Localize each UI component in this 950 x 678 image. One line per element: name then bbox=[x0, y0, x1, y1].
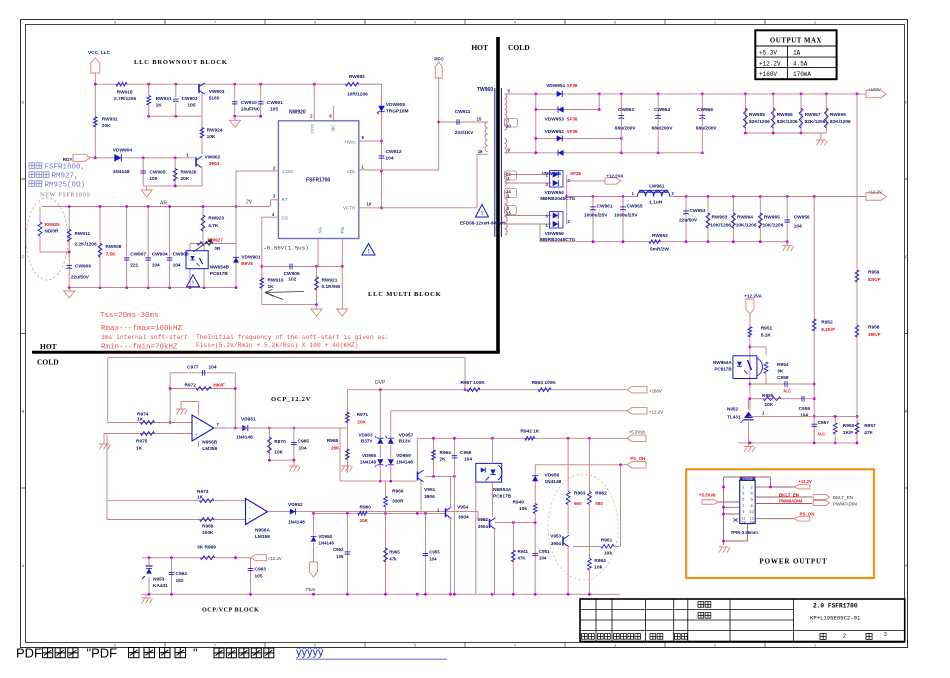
svg-text:10K/1206: 10K/1206 bbox=[763, 223, 784, 229]
svg-text:7: 7 bbox=[214, 644, 216, 648]
svg-text:8.2K/F: 8.2K/F bbox=[821, 327, 835, 332]
svg-text:PG: PG bbox=[340, 226, 345, 233]
svg-text:N956B: N956B bbox=[202, 440, 217, 446]
svg-text:VDW952: VDW952 bbox=[545, 129, 565, 135]
svg-text:CW901: CW901 bbox=[267, 100, 283, 106]
svg-text:2: 2 bbox=[714, 644, 716, 648]
svg-text:PC817B: PC817B bbox=[714, 367, 732, 372]
svg-text:82K/1206: 82K/1206 bbox=[749, 119, 770, 125]
svg-text:580: 580 bbox=[595, 501, 603, 506]
svg-text:CW961: CW961 bbox=[597, 204, 613, 210]
svg-text:C952: C952 bbox=[333, 547, 344, 552]
svg-text:1K: 1K bbox=[136, 446, 143, 452]
svg-text:B37V: B37V bbox=[361, 439, 373, 444]
svg-text:3904: 3904 bbox=[551, 541, 562, 546]
svg-text:10K/1206: 10K/1206 bbox=[736, 223, 757, 229]
svg-text:RW931: RW931 bbox=[156, 96, 172, 102]
svg-text:10K: 10K bbox=[274, 450, 283, 456]
svg-text:CW955: CW955 bbox=[627, 204, 643, 210]
svg-text:1N4148: 1N4148 bbox=[113, 169, 130, 175]
svg-text:104: 104 bbox=[386, 156, 394, 162]
svg-text:1000u/25V: 1000u/25V bbox=[614, 213, 638, 219]
svg-text:16: 16 bbox=[478, 149, 483, 154]
svg-text:R984: R984 bbox=[594, 558, 606, 564]
svg-text:390/F: 390/F bbox=[213, 383, 225, 388]
svg-text:R957: R957 bbox=[864, 423, 876, 429]
svg-text:10K/1206: 10K/1206 bbox=[710, 223, 731, 229]
svg-text:R954: R954 bbox=[777, 362, 789, 368]
svg-text:20K: 20K bbox=[102, 123, 111, 129]
svg-text:PC817B: PC817B bbox=[210, 271, 229, 277]
svg-text:RW910: RW910 bbox=[268, 278, 284, 284]
svg-text:SF38: SF38 bbox=[567, 116, 578, 121]
svg-text:10K: 10K bbox=[207, 134, 216, 140]
svg-text:V952: V952 bbox=[477, 517, 488, 522]
svg-text:R863 100K: R863 100K bbox=[532, 380, 557, 386]
svg-text:N.C: N.C bbox=[818, 432, 827, 437]
svg-text:COLD: COLD bbox=[508, 43, 530, 52]
svg-text:1N4148: 1N4148 bbox=[288, 520, 305, 526]
svg-text:RW925: RW925 bbox=[45, 222, 61, 227]
svg-text:4: 4 bbox=[514, 644, 516, 648]
svg-text:VDW954: VDW954 bbox=[545, 190, 565, 196]
svg-text:47k: 47k bbox=[389, 557, 397, 562]
svg-text:BKLT_EN: BKLT_EN bbox=[833, 495, 853, 500]
svg-text:VD957: VD957 bbox=[399, 433, 414, 439]
svg-text:20K: 20K bbox=[331, 446, 340, 451]
svg-text:HOT: HOT bbox=[471, 43, 488, 52]
svg-text:3: 3 bbox=[614, 644, 616, 648]
svg-text:N953: N953 bbox=[153, 577, 165, 583]
svg-text:A: A bbox=[22, 563, 25, 568]
svg-text:22u/50V: 22u/50V bbox=[71, 275, 90, 281]
svg-text:R958: R958 bbox=[868, 325, 880, 331]
svg-text:LW961: LW961 bbox=[649, 184, 665, 190]
svg-text:C: C bbox=[21, 254, 24, 259]
svg-text:2V: 2V bbox=[246, 200, 253, 206]
svg-text:RW957: RW957 bbox=[805, 112, 821, 118]
svg-text:VD955: VD955 bbox=[362, 453, 376, 458]
svg-text:R967 100K: R967 100K bbox=[461, 380, 486, 386]
svg-text:3904: 3904 bbox=[458, 515, 469, 521]
svg-text:1K: 1K bbox=[137, 417, 144, 423]
svg-text:3: 3 bbox=[884, 632, 887, 638]
svg-text:−: − bbox=[195, 421, 198, 426]
svg-text:RW908: RW908 bbox=[106, 244, 122, 250]
svg-text:ND/0R: ND/0R bbox=[45, 229, 59, 234]
svg-text:10k: 10k bbox=[519, 506, 527, 512]
svg-text:182: 182 bbox=[176, 578, 184, 584]
svg-text:TW960: TW960 bbox=[477, 87, 493, 93]
svg-text:+5.3Vsb: +5.3Vsb bbox=[699, 492, 716, 497]
svg-text:CW912: CW912 bbox=[386, 149, 402, 155]
svg-text:CW905: CW905 bbox=[149, 170, 165, 176]
svg-text:B6V8: B6V8 bbox=[241, 261, 253, 266]
svg-text:C965: C965 bbox=[298, 439, 310, 445]
svg-text:R973: R973 bbox=[197, 489, 209, 495]
svg-text:14: 14 bbox=[749, 519, 754, 524]
svg-text:N.C: N.C bbox=[784, 389, 792, 394]
svg-text:V951: V951 bbox=[424, 487, 436, 493]
svg-text:Rmax---fmax=160kHZ: Rmax---fmax=160kHZ bbox=[101, 325, 183, 333]
svg-text:RW921: RW921 bbox=[322, 277, 338, 283]
svg-text:VDW904: VDW904 bbox=[113, 148, 133, 154]
svg-text:0R: 0R bbox=[215, 246, 222, 251]
svg-text:R971: R971 bbox=[357, 412, 369, 418]
svg-text:!: ! bbox=[481, 211, 483, 217]
svg-text:C964: C964 bbox=[176, 571, 188, 577]
svg-text:AR: AR bbox=[160, 201, 167, 207]
svg-text:CW966: CW966 bbox=[697, 107, 713, 113]
svg-text:47K: 47K bbox=[518, 556, 527, 561]
svg-text:6: 6 bbox=[314, 21, 316, 25]
svg-text:R963: R963 bbox=[574, 491, 586, 497]
svg-text:1K: 1K bbox=[197, 495, 204, 501]
svg-text:RW932: RW932 bbox=[102, 117, 118, 123]
svg-text:Rmin---fmin=70kHZ: Rmin---fmin=70kHZ bbox=[101, 344, 178, 352]
svg-text:RDY: RDY bbox=[63, 157, 73, 162]
svg-text:+160V: +160V bbox=[868, 87, 881, 92]
svg-text:TL431: TL431 bbox=[727, 415, 741, 420]
svg-text:2: 2 bbox=[714, 21, 716, 25]
svg-text:5mR/2W: 5mR/2W bbox=[650, 247, 669, 253]
svg-text:EFD58-12xxH-908uH: EFD58-12xxH-908uH bbox=[460, 221, 505, 226]
svg-text:R961: R961 bbox=[601, 538, 613, 544]
svg-text:104: 104 bbox=[800, 412, 808, 418]
svg-text:SF38: SF38 bbox=[570, 171, 581, 176]
svg-text:2K: 2K bbox=[440, 457, 447, 463]
svg-text:104: 104 bbox=[539, 556, 547, 561]
svg-text:VCC_LLC: VCC_LLC bbox=[88, 50, 111, 56]
svg-text:CW911: CW911 bbox=[455, 109, 471, 115]
svg-text:VDW905: VDW905 bbox=[386, 102, 406, 108]
svg-text:VD952: VD952 bbox=[288, 502, 303, 508]
svg-text:B: B bbox=[905, 408, 908, 413]
svg-text:104: 104 bbox=[299, 446, 307, 452]
svg-text:CS: CS bbox=[282, 216, 288, 221]
svg-text:1N4148: 1N4148 bbox=[360, 460, 377, 465]
svg-text:82K/F: 82K/F bbox=[868, 277, 881, 282]
svg-text:7.5K: 7.5K bbox=[106, 252, 117, 258]
svg-text:TheInitial frequency of the so: TheInitial frequency of the soft-start i… bbox=[196, 334, 389, 341]
svg-text:1A: 1A bbox=[793, 50, 801, 57]
svg-text:104: 104 bbox=[429, 557, 437, 562]
svg-text:68u/200V: 68u/200V bbox=[652, 126, 674, 132]
svg-text:104: 104 bbox=[794, 224, 802, 230]
svg-text:Tss=20ms-30ms: Tss=20ms-30ms bbox=[100, 312, 159, 320]
svg-text:R966: R966 bbox=[392, 489, 404, 495]
svg-text:VD956: VD956 bbox=[545, 473, 560, 479]
svg-text:170mA: 170mA bbox=[793, 71, 811, 78]
svg-text:CW953: CW953 bbox=[690, 208, 706, 214]
svg-text:1N4148: 1N4148 bbox=[236, 435, 253, 441]
svg-text:R941: R941 bbox=[518, 549, 529, 554]
svg-text:KP+L195E05C2-01: KP+L195E05C2-01 bbox=[810, 615, 861, 622]
svg-text:4.5A: 4.5A bbox=[793, 60, 808, 67]
svg-text:": " bbox=[193, 646, 198, 661]
svg-text:39K/F: 39K/F bbox=[868, 332, 881, 337]
svg-text:PC817B: PC817B bbox=[493, 494, 512, 500]
svg-text:VDW956: VDW956 bbox=[545, 231, 565, 237]
svg-text:3ms internal soft-start: 3ms internal soft-start bbox=[101, 334, 188, 341]
svg-text:V954: V954 bbox=[457, 505, 469, 511]
svg-text:TRGP10M: TRGP10M bbox=[386, 108, 409, 114]
svg-text:NEW FSFR1800: NEW FSFR1800 bbox=[40, 192, 90, 199]
svg-text:104: 104 bbox=[152, 263, 160, 269]
svg-text:3K R969: 3K R969 bbox=[197, 545, 216, 551]
svg-text:A: A bbox=[905, 563, 908, 568]
svg-text:CW907: CW907 bbox=[130, 252, 146, 258]
svg-text:+: + bbox=[249, 516, 252, 521]
svg-text:10k: 10k bbox=[604, 551, 612, 557]
svg-text:PDF: PDF bbox=[16, 646, 42, 661]
svg-text:CW964: CW964 bbox=[654, 107, 670, 113]
svg-text:D: D bbox=[21, 99, 24, 104]
svg-text:7PIN-3.96mm: 7PIN-3.96mm bbox=[731, 530, 758, 535]
svg-text:CW903: CW903 bbox=[182, 96, 198, 102]
svg-text:+160V: +160V bbox=[649, 388, 662, 393]
svg-text:330R: 330R bbox=[392, 499, 404, 505]
svg-text:C951: C951 bbox=[539, 549, 550, 554]
svg-text:5160: 5160 bbox=[209, 95, 220, 101]
svg-text:2: 2 bbox=[843, 634, 846, 640]
svg-text:RW926: RW926 bbox=[181, 170, 197, 176]
svg-text:R964: R964 bbox=[440, 450, 452, 456]
svg-text:R940: R940 bbox=[513, 500, 525, 506]
svg-text:+12.2V: +12.2V bbox=[759, 60, 781, 67]
svg-text:PWM/ADIM: PWM/ADIM bbox=[779, 499, 803, 504]
svg-text:C: C bbox=[905, 254, 908, 259]
svg-text:PFC: PFC bbox=[434, 57, 444, 63]
svg-text:NB953A: NB953A bbox=[493, 487, 512, 493]
svg-text:KA431: KA431 bbox=[153, 583, 168, 589]
svg-text:SF38: SF38 bbox=[567, 83, 578, 88]
svg-text:PS_ON: PS_ON bbox=[630, 456, 645, 461]
svg-text:LM358: LM358 bbox=[202, 446, 217, 452]
svg-text:COLD: COLD bbox=[37, 358, 59, 367]
svg-text:104: 104 bbox=[173, 263, 181, 269]
svg-text:NW954B: NW954B bbox=[210, 265, 230, 271]
svg-text:OUTPUT MAX: OUTPUT MAX bbox=[770, 38, 822, 45]
svg-text:FSFR1700: FSFR1700 bbox=[306, 178, 330, 184]
svg-text:3904: 3904 bbox=[478, 524, 489, 529]
svg-text:+5.3Vsb: +5.3Vsb bbox=[629, 430, 646, 435]
svg-text:3906: 3906 bbox=[424, 494, 435, 500]
svg-text:5: 5 bbox=[414, 21, 416, 25]
svg-text:10K: 10K bbox=[765, 402, 774, 408]
svg-text:RW918: RW918 bbox=[117, 90, 133, 96]
svg-text:1K/F: 1K/F bbox=[843, 430, 853, 436]
svg-text:RM925(0Ω): RM925(0Ω) bbox=[45, 182, 86, 190]
svg-text:RM927,: RM927, bbox=[52, 173, 79, 181]
svg-text:R972: R972 bbox=[185, 383, 197, 389]
svg-text:105: 105 bbox=[188, 102, 196, 108]
svg-text:LVcc: LVcc bbox=[310, 123, 315, 134]
svg-text:CON: CON bbox=[283, 169, 293, 174]
svg-text:4.7K: 4.7K bbox=[208, 223, 219, 229]
svg-text:CW956: CW956 bbox=[794, 215, 810, 221]
svg-text:POWER OUTPUT: POWER OUTPUT bbox=[759, 558, 827, 566]
svg-text:560: 560 bbox=[574, 501, 582, 506]
svg-text:0.1R/5W: 0.1R/5W bbox=[322, 284, 341, 290]
svg-text:SG: SG bbox=[317, 226, 322, 233]
svg-text:OVP: OVP bbox=[375, 380, 386, 386]
svg-text:100K: 100K bbox=[202, 530, 214, 536]
svg-text:1N4148: 1N4148 bbox=[396, 460, 413, 466]
svg-text:22u/50V: 22u/50V bbox=[679, 218, 698, 224]
svg-text:R968: R968 bbox=[202, 524, 214, 530]
svg-text:2.0 FSFR1700: 2.0 FSFR1700 bbox=[813, 603, 858, 610]
svg-text:R951: R951 bbox=[761, 326, 773, 332]
svg-text:HVcc: HVcc bbox=[345, 139, 357, 144]
svg-text:RW923: RW923 bbox=[208, 216, 224, 222]
svg-text:PWM/ADIM: PWM/ADIM bbox=[833, 502, 857, 507]
svg-text:2.2K/1206: 2.2K/1206 bbox=[75, 242, 97, 248]
svg-text:68u/200V: 68u/200V bbox=[615, 126, 637, 132]
svg-text:−: − bbox=[249, 504, 252, 509]
svg-text:R965: R965 bbox=[389, 550, 400, 555]
svg-text:10: 10 bbox=[749, 509, 754, 514]
svg-text:104: 104 bbox=[464, 457, 472, 463]
svg-text:BKLT_EN: BKLT_EN bbox=[779, 492, 799, 497]
svg-text:CW906: CW906 bbox=[284, 271, 300, 277]
svg-text:RW924: RW924 bbox=[207, 128, 223, 134]
svg-text:RW982: RW982 bbox=[349, 74, 365, 80]
svg-text:20K: 20K bbox=[360, 518, 369, 523]
svg-text:10R/1206: 10R/1206 bbox=[347, 92, 368, 98]
svg-text:R959: R959 bbox=[868, 270, 880, 276]
svg-text:RW964: RW964 bbox=[737, 215, 753, 221]
svg-text:R982: R982 bbox=[595, 491, 607, 497]
svg-text:10: 10 bbox=[367, 202, 372, 207]
svg-text:HOT: HOT bbox=[40, 342, 57, 351]
svg-text:Fiss=(5.2k/Rmin + 5.2k/Rss) X: Fiss=(5.2k/Rmin + 5.2k/Rss) X 100 + 40(K… bbox=[196, 342, 359, 349]
svg-text:FSFR1800,: FSFR1800, bbox=[45, 164, 86, 172]
svg-text:105: 105 bbox=[255, 574, 263, 580]
svg-text:1K: 1K bbox=[156, 102, 163, 108]
svg-text:82K/1206: 82K/1206 bbox=[777, 119, 798, 125]
svg-text:221: 221 bbox=[130, 263, 138, 269]
svg-text:2.7R/1206: 2.7R/1206 bbox=[114, 96, 136, 102]
svg-text:LM358: LM358 bbox=[255, 534, 270, 540]
svg-text:C957: C957 bbox=[818, 420, 830, 426]
svg-text:LLC MULTI BLOCK: LLC MULTI BLOCK bbox=[368, 291, 442, 298]
svg-text:VDL: VDL bbox=[347, 169, 356, 174]
svg-text:223/1KV: 223/1KV bbox=[455, 130, 474, 136]
svg-text:R968: R968 bbox=[327, 438, 339, 444]
svg-text:+12.2VA: +12.2VA bbox=[744, 293, 762, 298]
svg-text:C963: C963 bbox=[255, 567, 267, 573]
svg-text:VDW901: VDW901 bbox=[241, 255, 261, 261]
svg-text:C958: C958 bbox=[777, 375, 789, 381]
svg-text:13: 13 bbox=[506, 211, 511, 216]
svg-text:D: D bbox=[905, 99, 908, 104]
svg-text:+: + bbox=[195, 432, 198, 437]
svg-text:R942 1K: R942 1K bbox=[520, 429, 539, 435]
svg-text:R974: R974 bbox=[137, 412, 149, 418]
svg-text:5: 5 bbox=[414, 644, 416, 648]
svg-text:OCP/VCP BLOCK: OCP/VCP BLOCK bbox=[202, 608, 259, 614]
svg-text:4: 4 bbox=[514, 21, 516, 25]
svg-text:20K: 20K bbox=[181, 176, 190, 182]
svg-text:NW954A: NW954A bbox=[713, 360, 732, 365]
svg-text:82K/1206: 82K/1206 bbox=[830, 119, 851, 125]
svg-text:NC: NC bbox=[331, 124, 336, 131]
svg-text:R952: R952 bbox=[821, 320, 833, 326]
svg-text:CW963: CW963 bbox=[618, 107, 634, 113]
svg-text:R960: R960 bbox=[360, 505, 372, 511]
svg-text:1: 1 bbox=[814, 644, 816, 648]
svg-text:RT: RT bbox=[282, 197, 288, 202]
svg-text:82K/1206: 82K/1206 bbox=[805, 119, 826, 125]
svg-text:1N4148: 1N4148 bbox=[545, 479, 562, 485]
svg-text:RW959: RW959 bbox=[830, 112, 846, 118]
svg-text:+12.2V: +12.2V bbox=[868, 190, 882, 195]
svg-text:"PDF: "PDF bbox=[87, 646, 118, 661]
svg-text:RW965: RW965 bbox=[764, 215, 780, 221]
svg-text:R955: R955 bbox=[762, 393, 774, 399]
svg-text:105: 105 bbox=[149, 176, 157, 182]
svg-text:105: 105 bbox=[336, 554, 344, 559]
svg-text:68u/200V: 68u/200V bbox=[696, 126, 718, 132]
svg-text:VDW953: VDW953 bbox=[545, 116, 565, 122]
svg-text:RW963: RW963 bbox=[712, 215, 728, 221]
svg-text:CW904: CW904 bbox=[152, 252, 168, 258]
svg-text:1N4148: 1N4148 bbox=[319, 541, 335, 546]
svg-text:VW902: VW902 bbox=[205, 155, 221, 161]
svg-text:3K: 3K bbox=[777, 369, 784, 375]
svg-text:R975: R975 bbox=[136, 439, 148, 445]
svg-text:C956: C956 bbox=[460, 450, 472, 456]
svg-text:RW952: RW952 bbox=[652, 233, 668, 239]
svg-text:V953: V953 bbox=[550, 534, 561, 539]
svg-text:8: 8 bbox=[114, 21, 116, 25]
svg-text:C955: C955 bbox=[429, 550, 440, 555]
svg-text:R960: R960 bbox=[843, 423, 855, 429]
svg-text:R870: R870 bbox=[274, 439, 286, 445]
svg-text:10uF/NC: 10uF/NC bbox=[241, 107, 261, 113]
svg-text:VDW951: VDW951 bbox=[546, 83, 566, 89]
svg-text:C977: C977 bbox=[187, 365, 199, 371]
svg-text:+5.3V: +5.3V bbox=[759, 50, 777, 57]
svg-text:13: 13 bbox=[741, 519, 746, 524]
svg-text:7: 7 bbox=[214, 21, 216, 25]
svg-text:10: 10 bbox=[506, 124, 511, 129]
svg-text:N956A: N956A bbox=[255, 528, 270, 534]
svg-text:104: 104 bbox=[209, 365, 217, 371]
svg-text:SF38: SF38 bbox=[567, 129, 578, 134]
svg-text:1000u/25V: 1000u/25V bbox=[584, 213, 608, 219]
svg-text:Pbar: Pbar bbox=[306, 587, 316, 592]
svg-text:105: 105 bbox=[270, 107, 278, 113]
svg-text:+12.2V: +12.2V bbox=[268, 556, 282, 561]
svg-text:OCP_12.2V: OCP_12.2V bbox=[271, 396, 311, 403]
svg-text:LLC BROWNOUT BLOCK: LLC BROWNOUT BLOCK bbox=[134, 59, 228, 66]
svg-text:VD959: VD959 bbox=[396, 453, 411, 459]
svg-text:B: B bbox=[22, 408, 25, 413]
svg-text:1K: 1K bbox=[268, 284, 275, 290]
svg-text:RW955: RW955 bbox=[749, 112, 765, 118]
svg-text:+12.2VA: +12.2VA bbox=[607, 174, 625, 179]
svg-text:3904: 3904 bbox=[209, 161, 220, 167]
svg-text:15: 15 bbox=[477, 117, 482, 122]
svg-text:NW920: NW920 bbox=[289, 110, 306, 116]
svg-text:3: 3 bbox=[614, 21, 616, 25]
svg-text:B13V: B13V bbox=[399, 439, 412, 445]
svg-text:10k: 10k bbox=[594, 565, 602, 571]
svg-text:RW956: RW956 bbox=[777, 112, 793, 118]
svg-text:47K: 47K bbox=[864, 430, 873, 436]
